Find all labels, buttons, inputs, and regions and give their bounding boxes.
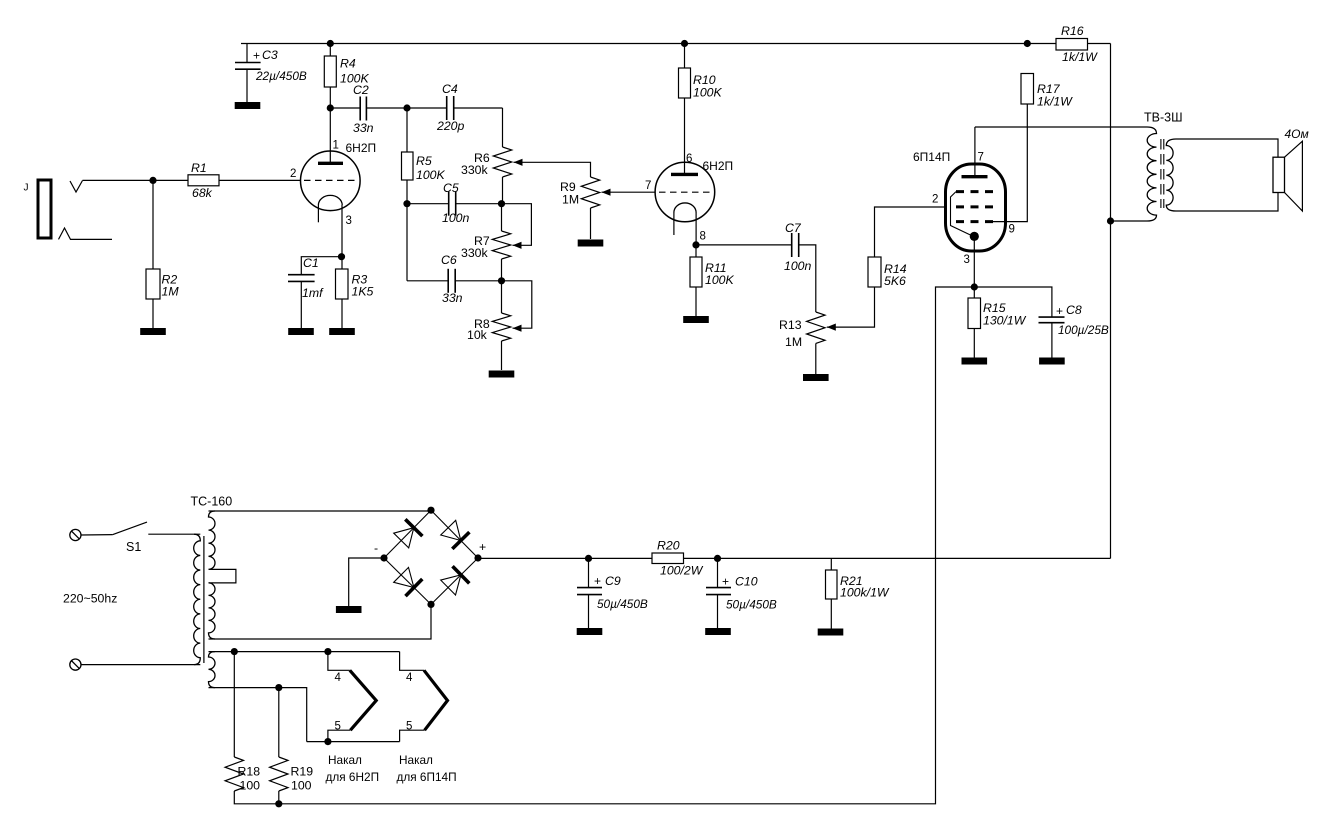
B+ rail wire bbox=[241, 43, 1027, 45]
svg-text:100n: 100n bbox=[442, 211, 470, 225]
resistor R16 bbox=[1027, 43, 1056, 45]
resistor R21 bbox=[830, 558, 832, 570]
node R6/R7/C5 right bbox=[498, 200, 505, 207]
node B+ rail / R17 bbox=[1024, 40, 1031, 47]
svg-text:1M: 1M bbox=[785, 335, 802, 349]
ground under R13 bbox=[803, 374, 829, 381]
capacitor C10 electrolytic bbox=[717, 558, 719, 587]
TS-160 HV secondary section 2 bbox=[209, 583, 216, 639]
svg-text:для 6П14П: для 6П14П bbox=[397, 770, 457, 784]
node C6/R8 bbox=[498, 277, 505, 284]
node R5/C5 left bbox=[403, 200, 410, 207]
resistor R4 bbox=[329, 44, 331, 57]
node V3 cathode junction bbox=[971, 283, 978, 290]
capacitor C6 bbox=[407, 280, 448, 282]
svg-text:1k/1W: 1k/1W bbox=[1037, 95, 1073, 109]
R13 wiper arrow wire to R14 bbox=[827, 324, 836, 331]
diode D2 bbox=[441, 520, 461, 540]
heater filament for 6P14P bbox=[424, 670, 448, 730]
svg-text:1: 1 bbox=[333, 140, 339, 152]
resistor R15 bbox=[973, 287, 975, 298]
V3 cathode dot bbox=[970, 232, 979, 241]
resistor R3 bbox=[341, 257, 343, 269]
svg-text:100: 100 bbox=[291, 779, 312, 793]
jack sleeve contact bbox=[59, 228, 113, 239]
svg-text:68k: 68k bbox=[192, 186, 213, 200]
node heater1 top bbox=[324, 648, 331, 655]
wire heater winding top rail bbox=[209, 651, 400, 653]
svg-text:R5: R5 bbox=[416, 154, 432, 168]
svg-text:100/2W: 100/2W bbox=[660, 564, 704, 578]
wire node to R1 bbox=[153, 179, 188, 181]
capacitor C8 electrolytic bbox=[974, 287, 1052, 317]
transformer core bbox=[1160, 139, 1162, 208]
node heater bottom bbox=[324, 738, 331, 745]
svg-text:50µ/450В: 50µ/450В bbox=[726, 598, 777, 612]
wire V1 cathode to node bbox=[341, 205, 343, 257]
resistor R20 bbox=[652, 553, 684, 564]
svg-text:6Н2П: 6Н2П bbox=[703, 159, 734, 173]
potentiometer R9 1M bbox=[581, 177, 599, 208]
svg-text:4: 4 bbox=[335, 672, 342, 684]
svg-text:5: 5 bbox=[406, 721, 412, 733]
svg-text:100n: 100n bbox=[784, 259, 812, 273]
ground under R8 bbox=[489, 371, 515, 378]
node C10 bbox=[714, 555, 721, 562]
svg-text:R16: R16 bbox=[1061, 24, 1084, 38]
bridge nodes bbox=[427, 507, 434, 514]
wire V2 cathode to node bbox=[695, 213, 697, 245]
svg-text:7: 7 bbox=[645, 180, 651, 192]
R9 wiper arrow wire to V2 grid bbox=[602, 189, 611, 196]
svg-text:3: 3 bbox=[346, 215, 352, 227]
node R18 top bbox=[231, 648, 238, 655]
svg-text:R18: R18 bbox=[238, 765, 261, 779]
wire secondary to speaker bbox=[1176, 139, 1278, 157]
transformer TV-3Sh primary winding bbox=[1147, 127, 1157, 221]
svg-text:8: 8 bbox=[700, 231, 706, 243]
heater filament for 6N2P bbox=[328, 652, 350, 671]
svg-text:330k: 330k bbox=[461, 246, 489, 260]
wire bridge minus to ground bbox=[349, 558, 384, 606]
svg-text:4Ом: 4Ом bbox=[1285, 127, 1309, 141]
node R4 top bbox=[327, 40, 334, 47]
capacitor C3 electrolytic bbox=[246, 44, 248, 63]
svg-text:100: 100 bbox=[240, 779, 261, 793]
ground under C10 bbox=[705, 628, 731, 635]
svg-text:5: 5 bbox=[335, 721, 341, 733]
V2 cathode arc bbox=[674, 203, 696, 213]
ground under R11 bbox=[683, 316, 709, 323]
svg-text:22µ/450В: 22µ/450В bbox=[255, 69, 307, 83]
TS-160 winding tap jog bbox=[209, 569, 236, 583]
capacitor C7 bbox=[696, 244, 792, 246]
svg-text:1mf: 1mf bbox=[302, 286, 324, 300]
svg-text:R20: R20 bbox=[657, 539, 680, 553]
V3 suppressor to cathode internal link bbox=[951, 192, 973, 236]
node R19 top bbox=[275, 684, 282, 691]
svg-text:C10: C10 bbox=[735, 575, 758, 589]
svg-text:100K: 100K bbox=[693, 86, 723, 100]
transformer TV-3Sh secondary winding bbox=[1166, 139, 1176, 211]
potentiometer R6 330k bbox=[502, 108, 504, 147]
TS-160 HV secondary section 1 bbox=[209, 511, 216, 569]
resistor R11 bbox=[695, 245, 697, 257]
svg-text:R19: R19 bbox=[291, 765, 314, 779]
svg-text:220~50hz: 220~50hz bbox=[63, 592, 117, 606]
svg-text:130/1W: 130/1W bbox=[983, 314, 1027, 328]
svg-text:C9: C9 bbox=[605, 574, 621, 588]
svg-text:6П14П: 6П14П bbox=[913, 150, 950, 164]
ground under C9 bbox=[577, 628, 603, 635]
tube V3 6P14P output pentode bbox=[946, 164, 1006, 251]
node C2/R5/C4 bbox=[403, 104, 410, 111]
svg-text:9: 9 bbox=[1009, 224, 1015, 236]
diode D4 bbox=[441, 575, 461, 595]
svg-text:C4: C4 bbox=[442, 82, 458, 96]
svg-text:6Н2П: 6Н2П bbox=[346, 141, 377, 155]
TS-160 core bbox=[203, 536, 205, 663]
capacitor C4 bbox=[407, 107, 447, 109]
mains terminal 2 bbox=[70, 659, 81, 670]
wire bridge plus B+ line bbox=[478, 557, 652, 559]
ground under R2 bbox=[140, 328, 166, 335]
svg-text:для 6Н2П: для 6Н2П bbox=[326, 770, 380, 784]
resistor R18 bbox=[233, 652, 235, 757]
node input bbox=[149, 177, 156, 184]
potentiometer R7 330k bbox=[501, 204, 503, 231]
svg-text:7: 7 bbox=[978, 152, 984, 164]
node heater CT return bbox=[275, 800, 282, 807]
svg-text:33n: 33n bbox=[353, 121, 374, 135]
svg-text:R13: R13 bbox=[779, 318, 802, 332]
V3 grid rows dashed bbox=[956, 190, 993, 193]
svg-text:330k: 330k bbox=[461, 163, 489, 177]
svg-text:6: 6 bbox=[686, 153, 692, 165]
svg-text:+: + bbox=[1056, 304, 1063, 318]
svg-text:Накал: Накал bbox=[399, 753, 433, 767]
svg-text:4: 4 bbox=[406, 672, 413, 684]
ground bridge bbox=[336, 606, 362, 613]
V1 anode plate bar bbox=[329, 108, 331, 163]
resistor R14 bbox=[868, 257, 881, 287]
wire V3 cathode feedback to heater network bbox=[279, 287, 975, 804]
resistor R17 bbox=[1021, 74, 1034, 105]
jack tip contact bbox=[70, 181, 83, 193]
svg-text:220p: 220p bbox=[436, 119, 465, 133]
R7 wiper arrow loop to top node bbox=[513, 242, 522, 249]
switch S1 bbox=[81, 534, 113, 536]
node V2 cathode bbox=[692, 241, 699, 248]
ground under R15 bbox=[962, 358, 988, 365]
transformer TS-160 primary winding bbox=[194, 534, 201, 664]
svg-text:1K5: 1K5 bbox=[352, 285, 374, 299]
node V1 anode bbox=[327, 104, 334, 111]
svg-text:C8: C8 bbox=[1066, 303, 1082, 317]
ground under C3 bbox=[235, 102, 261, 109]
tube V1 6N2P triode (first half) bbox=[301, 151, 361, 211]
svg-text:+: + bbox=[594, 574, 601, 588]
svg-text:Накал: Накал bbox=[328, 753, 362, 767]
wire V3 pin3 cathode bbox=[973, 236, 975, 287]
svg-text:2: 2 bbox=[932, 194, 938, 206]
svg-text:C7: C7 bbox=[785, 221, 802, 235]
ground under R3 bbox=[329, 328, 355, 335]
svg-text:+: + bbox=[479, 540, 486, 554]
bridge rectifier diamond wires bbox=[384, 510, 431, 558]
resistor R5 bbox=[406, 108, 408, 152]
wire heater winding bottom bbox=[209, 688, 307, 742]
speaker 4Om bbox=[1273, 157, 1285, 192]
svg-text:J: J bbox=[24, 183, 29, 194]
wire HV top to bridge bbox=[209, 509, 432, 512]
svg-text:C6: C6 bbox=[441, 253, 457, 267]
diode D1 bbox=[394, 528, 414, 548]
wire HV bottom to bridge bbox=[209, 604, 432, 639]
wire input to grid node bbox=[83, 179, 154, 181]
R6 wiper arrow wire to R9 bbox=[514, 159, 523, 166]
svg-text:C3: C3 bbox=[262, 48, 278, 62]
svg-text:ТС-160: ТС-160 bbox=[191, 495, 233, 509]
ground under R21 bbox=[818, 629, 844, 636]
svg-text:1M: 1M bbox=[162, 285, 180, 299]
tube V2 6N2P triode (second half) bbox=[655, 162, 715, 222]
ground under R9 bbox=[578, 240, 604, 247]
svg-text:R1: R1 bbox=[191, 161, 207, 175]
svg-text:ТВ-3Ш: ТВ-3Ш bbox=[1144, 111, 1183, 125]
svg-text:5K6: 5K6 bbox=[884, 274, 906, 288]
svg-text:33n: 33n bbox=[442, 291, 463, 305]
svg-text:S1: S1 bbox=[126, 540, 141, 554]
node OT primary bottom bbox=[1107, 217, 1114, 224]
svg-text:+: + bbox=[722, 575, 729, 589]
R8 wiper arrow loop bbox=[513, 325, 522, 332]
V2 anode plate bar bbox=[671, 173, 698, 176]
svg-text:2: 2 bbox=[290, 168, 296, 180]
capacitor C2 bbox=[330, 107, 360, 109]
svg-text:C2: C2 bbox=[353, 83, 369, 97]
svg-text:50µ/450В: 50µ/450В bbox=[597, 597, 648, 611]
V1 cathode arc bbox=[318, 195, 342, 205]
node C9 bbox=[585, 555, 592, 562]
ground under C1 bbox=[288, 328, 314, 335]
svg-text:100K: 100K bbox=[705, 273, 735, 287]
wire heater2 top feed bbox=[400, 652, 424, 671]
svg-text:100K: 100K bbox=[416, 168, 446, 182]
svg-text:-: - bbox=[374, 541, 378, 555]
potentiometer R8 10k bbox=[501, 281, 503, 313]
resistor R2 bbox=[152, 180, 154, 269]
capacitor C5 bbox=[407, 203, 449, 205]
wire left rail to C6 bbox=[406, 204, 408, 281]
resistor R10 bbox=[681, 40, 688, 47]
wire heater bottom rail bbox=[307, 741, 400, 743]
svg-text:R4: R4 bbox=[340, 57, 356, 71]
svg-text:3: 3 bbox=[964, 254, 970, 266]
capacitor C9 electrolytic bbox=[588, 558, 590, 587]
capacitor C1 bbox=[301, 257, 341, 275]
svg-text:C1: C1 bbox=[303, 256, 319, 270]
potentiometer R13 1M bbox=[807, 312, 825, 343]
input jack J bbox=[38, 180, 51, 238]
svg-text:100µ/25В: 100µ/25В bbox=[1058, 323, 1109, 337]
V1 grid dashed line bbox=[304, 179, 357, 181]
svg-text:+: + bbox=[253, 49, 260, 63]
ground under C8 bbox=[1039, 358, 1065, 365]
wire R1 to V1 grid bbox=[219, 179, 301, 181]
TS-160 heater winding bbox=[209, 652, 216, 688]
mains terminal 1 bbox=[70, 529, 81, 540]
wire V3 anode to OT primary top bbox=[975, 126, 1147, 128]
resistor R19 bbox=[278, 688, 280, 757]
diode D3 bbox=[394, 567, 414, 587]
V2 grid dashed line bbox=[659, 191, 711, 193]
svg-text:1M: 1M bbox=[562, 193, 579, 207]
svg-text:100k/1W: 100k/1W bbox=[840, 586, 890, 600]
svg-text:C5: C5 bbox=[443, 181, 459, 195]
svg-text:10k: 10k bbox=[467, 328, 488, 342]
V3 anode bar and pin 7 bbox=[962, 175, 988, 178]
svg-text:1k/1W: 1k/1W bbox=[1062, 50, 1098, 64]
resistor R1 bbox=[188, 175, 219, 186]
node cathode V1 bbox=[338, 253, 345, 260]
wire V3 pin9 screen to R17 bbox=[993, 104, 1027, 222]
wire R16 down to OT primary bottom bbox=[1110, 44, 1112, 559]
